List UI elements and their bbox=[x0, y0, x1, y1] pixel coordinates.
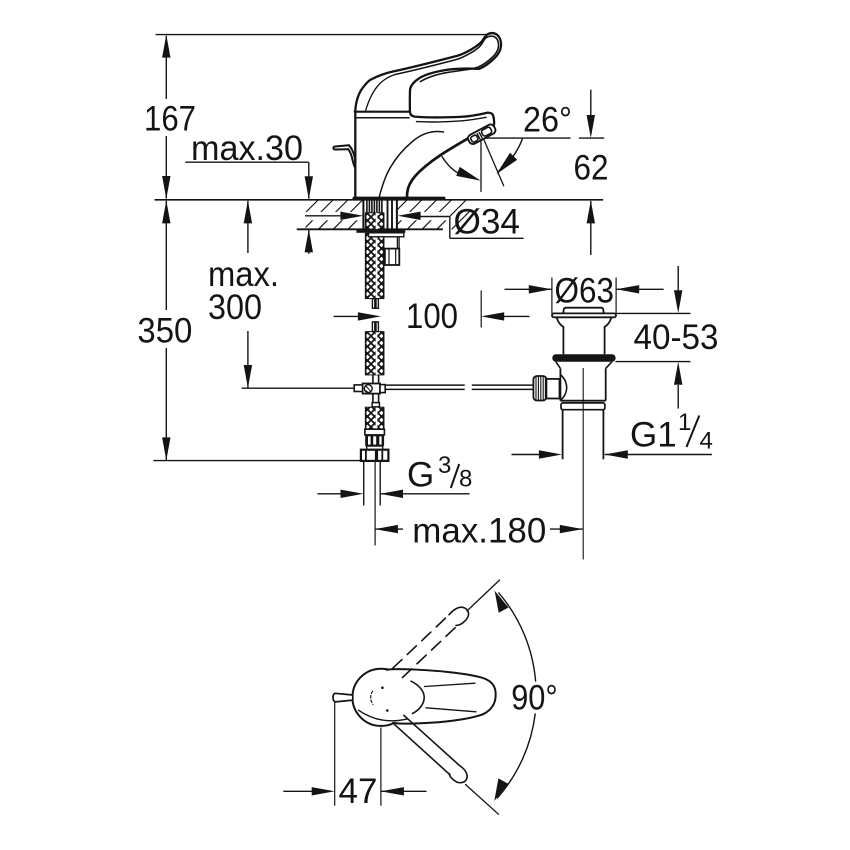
svg-text:90°: 90° bbox=[511, 679, 558, 718]
svg-text:40-53: 40-53 bbox=[634, 318, 719, 357]
svg-text:4: 4 bbox=[700, 428, 713, 455]
svg-text:100: 100 bbox=[406, 297, 458, 336]
svg-text:G1: G1 bbox=[630, 416, 677, 455]
svg-text:1: 1 bbox=[678, 409, 691, 436]
svg-text:max.180: max.180 bbox=[412, 512, 546, 551]
svg-text:3: 3 bbox=[438, 452, 451, 479]
svg-text:Ø34: Ø34 bbox=[454, 203, 521, 242]
svg-text:167: 167 bbox=[144, 100, 196, 139]
svg-text:300: 300 bbox=[208, 288, 262, 327]
svg-text:G: G bbox=[407, 456, 434, 495]
svg-text:8: 8 bbox=[459, 466, 472, 493]
svg-text:Ø63: Ø63 bbox=[555, 272, 615, 311]
svg-text:350: 350 bbox=[137, 312, 192, 351]
svg-text:47: 47 bbox=[339, 772, 378, 811]
svg-text:62: 62 bbox=[574, 148, 609, 187]
svg-text:26°: 26° bbox=[523, 101, 572, 140]
svg-text:max.30: max.30 bbox=[191, 129, 303, 168]
